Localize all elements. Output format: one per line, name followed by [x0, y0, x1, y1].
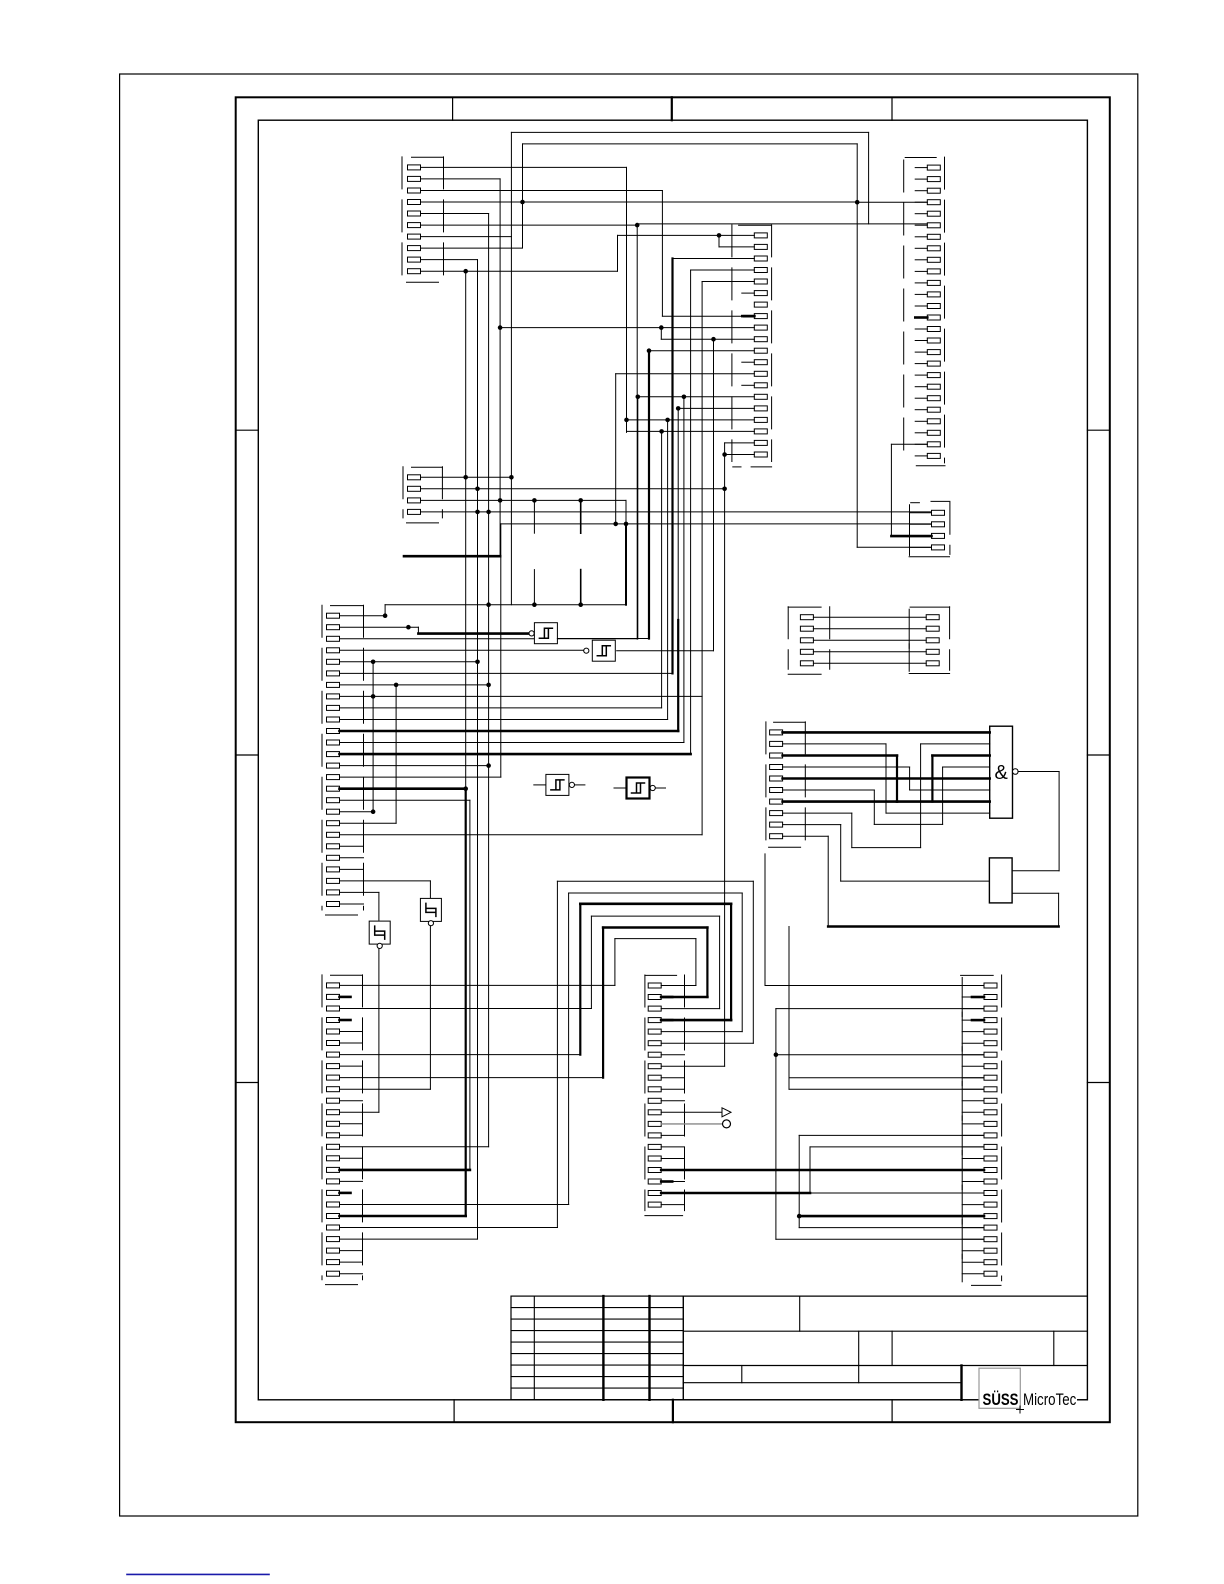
wire X5 pin19,pin20 / v724: [725, 442, 755, 444]
left jumper v396: [395, 685, 397, 823]
wire net A: X1 pin1 to bus: [421, 166, 627, 168]
wire X10 pin1 bold: [783, 731, 990, 734]
wire net: X1 pin10: [421, 270, 618, 272]
wire X11 pin12 arrow: [661, 1111, 722, 1113]
wire to X6 pin4: [857, 201, 927, 203]
wire X3 pin17: [340, 799, 470, 801]
wire X5 pin9 long: [500, 327, 754, 329]
wire S5 output to X4 pin10: [429, 926, 431, 1089]
wire X3 pin5: [340, 661, 478, 663]
connector X6 left dashed bracket: [903, 160, 905, 452]
wire net: X1 pin6: [421, 224, 638, 226]
wire vertical bus v626: [626, 167, 628, 432]
wire X2 pin4 to X7 pin1: [421, 511, 932, 513]
wire X12 pin22: [799, 1227, 984, 1229]
wire X2 pin3 / contact bus top: [421, 499, 627, 501]
inner drawing border: [258, 120, 1087, 1400]
schmitt trigger S5 (vertical): [420, 898, 441, 921]
wire X2 pin1: [421, 476, 512, 478]
connector X7 bottom bar: [909, 556, 949, 558]
wire X3 pin15: [340, 776, 501, 778]
wire X5 pin16 / X3 pin11 bold: [678, 407, 754, 409]
wire X10 pin9 to U2: [783, 824, 841, 826]
wire X5 pin11 / schmitt S1 output: [649, 350, 754, 352]
left jumper v373: [372, 662, 374, 812]
connector X4 (lower-left, 26 pins): [331, 974, 363, 976]
arch bundle 1: [557, 880, 753, 882]
wire S1 output: [557, 638, 649, 640]
wire to X7 pin3 from X6 pin25: [891, 443, 927, 445]
wire vertical x810: [809, 1147, 811, 1193]
connector X11 (bottom-middle, 20 pins): [645, 974, 677, 976]
schmitt trigger S3: [534, 784, 546, 786]
wire X5 pin13 / X7 pin2: [616, 373, 755, 375]
wire S6 output to X4 pin12: [378, 949, 380, 1113]
wire jog v661: [660, 328, 662, 340]
connector X5 bottom bar: [733, 466, 741, 468]
connector X10 (right block, 10 pins): [774, 721, 806, 723]
wire net: X1 pin8: [421, 247, 523, 249]
AND gate U1: [990, 726, 1013, 818]
frame section ticks left: [236, 429, 259, 431]
SUSS MicroTec logo: [1019, 1386, 1077, 1408]
wire X5 pin2 jog: [718, 235, 720, 247]
wire X3 pin4 to S2: [340, 649, 589, 651]
schmitt trigger S6 (vertical): [369, 921, 390, 944]
wire X11 pin13 with circle: [661, 1123, 723, 1125]
arch bundle 2: [569, 892, 743, 894]
wire to X7 pin4: [857, 546, 931, 548]
wire net: X1 pin9 down: [421, 259, 478, 261]
wire net: X1 pin7: [421, 236, 512, 238]
arch bundle 5 bold: [603, 926, 707, 929]
wire B bottom to X4 pin17 bold: [340, 1169, 470, 1172]
bold elbow: [404, 555, 500, 558]
wire X12 pin10: [789, 1088, 984, 1090]
wire vertical A x465: [465, 271, 467, 789]
wire to X6 pin6: [637, 223, 927, 225]
wire net: X1 pin2 down: [421, 178, 501, 180]
frame bottom strip dividers: [453, 1400, 455, 1422]
wire X10 pin3 bold staircase: [783, 754, 897, 757]
schmitt trigger S2: [587, 649, 589, 651]
wire net: X1 pin4 long: [421, 201, 858, 203]
box U2: [989, 858, 1012, 903]
wire X3 pin14: [340, 765, 489, 767]
wire vertical B x469: [469, 800, 471, 1170]
arch bundle 4: [591, 915, 719, 917]
blue underline bottom-left: [127, 1573, 269, 1575]
wire stub v522: [522, 144, 524, 248]
AND gate output bubble: [1013, 769, 1019, 775]
wire X12 pin15 / vertical x799: [798, 1135, 800, 1227]
wire vertical D x488: [488, 214, 490, 1147]
wire S2 output: [617, 650, 714, 652]
wire X12 pin3 / vertical x775: [775, 1009, 777, 1240]
junction dots top: [520, 200, 525, 205]
wire X4 pin20: [340, 1204, 569, 1206]
wires X8-X9: [813, 616, 926, 618]
svg-text:MicroTec: MicroTec: [1023, 1390, 1077, 1409]
wire A bottom to X4 pin21 bold: [340, 1215, 466, 1218]
wire X10 pin7 bold staircase: [783, 800, 897, 803]
wire X5 pin15 / X3 pin3 and X3 pin12: [638, 396, 755, 398]
wire X5 pin5 / X3 pin8,pin20: [702, 281, 754, 283]
wire vertical v713 S2 out: [713, 339, 715, 651]
connector X12 (bottom-right, 26 pins): [961, 974, 994, 976]
wire X5 pin1 feed: [618, 234, 755, 236]
connector X9 (5 pins, right of pair): [910, 606, 950, 608]
wire X10 pin10 to U2 loop bold: [783, 835, 829, 837]
connector X5 (middle, 20 pins): [739, 224, 772, 226]
wire X5 pin3 / X3 pin6 bold trunk: [673, 258, 755, 260]
section frame: [236, 97, 1110, 1422]
connector X12 bottom bar: [972, 1284, 1002, 1286]
wire X10 pin6 staircase: [783, 789, 875, 791]
wire X3 pin25 to S6: [340, 891, 379, 893]
wire X5 pin18 / X3 pin9: [627, 430, 755, 432]
wire X12 pin9 / vertical x789: [788, 927, 790, 1090]
wire X12 pin7: [776, 1054, 984, 1056]
wire X3 pin2 to S1: [340, 626, 419, 628]
wire X3 pin16 bold joins A: [340, 787, 466, 790]
wire net: X1 pin5 down: [421, 213, 489, 215]
connector X6 bottom bar: [916, 465, 945, 467]
wire X12 pin23: [776, 1238, 984, 1240]
wire C bottom to X4 pin23: [340, 1238, 478, 1240]
connector X3 (left tall, 26 pins): [331, 605, 364, 607]
wire vertical E2 x500 lower: [500, 524, 502, 777]
wire X10 pin2 staircase: [783, 743, 886, 745]
wire X4 pin22: [340, 1227, 558, 1229]
wire X12 pin21 bold: [799, 1215, 984, 1218]
wire X10 pin4 staircase: [783, 766, 910, 768]
connector X9 bottom bar: [909, 673, 949, 675]
frame section ticks top: [452, 97, 454, 120]
wire X5 pin4 / X3 pin13 bold row: [691, 269, 755, 271]
wire X11 pin17 to X12 pin17 bold: [661, 1169, 984, 1172]
outer page border: [120, 74, 1138, 1516]
wire top loop 2: [523, 143, 858, 145]
contact bus bottom: [385, 604, 626, 606]
wire X3 pin24 to S5: [340, 880, 431, 882]
schmitt S1 input bold: [418, 632, 529, 635]
wire X3 pin1 bus: [340, 615, 386, 617]
wire top loop 1: [511, 131, 868, 133]
wire vertical to X5 pin1: [617, 235, 619, 271]
wire X10 pin5 bold: [783, 777, 990, 780]
wire X10 pin8 staircase: [783, 812, 852, 814]
wire X12 pin1 feed: [764, 854, 766, 986]
wire X5 pin10 / schmitt S2 output: [661, 338, 754, 340]
connector X7 (right, 4 pins): [911, 502, 920, 504]
schmitt trigger S1: [529, 631, 534, 636]
svg-text:&: &: [995, 762, 1009, 784]
wire X5 pin17 / X3 pin10: [627, 419, 755, 421]
connector X6 (top-right, 26 pins): [905, 157, 936, 159]
title block table: [511, 1296, 683, 1400]
wire U1 output to U2: [1018, 771, 1059, 773]
arch bundle 6: [615, 938, 696, 940]
wire to X5 pin8: [662, 315, 754, 317]
svg-text:SÜSS: SÜSS: [983, 1390, 1019, 1409]
connector X2 (left, 4 pins): [412, 466, 443, 468]
wire vertical C x477: [477, 260, 479, 1240]
wire X3 pin7: [340, 684, 489, 686]
wire net: X1 pin3: [421, 190, 663, 192]
wire X11 pin19 to X12 pin19: [661, 1192, 810, 1195]
connector X8 (5 pins, left of pair): [788, 606, 821, 608]
wire vertical E x500: [499, 179, 501, 556]
wire vertical v662: [661, 191, 663, 317]
connector X1 (top-left, 10 pins): [412, 156, 444, 158]
schmitt trigger S4: [614, 787, 626, 789]
title block right cells: [683, 1295, 1087, 1297]
wire D bottom to X4 pin15: [340, 1146, 489, 1148]
wire X2 pin2 long: [421, 488, 725, 490]
wire vertical to X7 pin4: [856, 144, 858, 547]
wire vertical v637: [636, 224, 638, 639]
arch bundle 3 bold: [580, 902, 731, 905]
frame section ticks right: [1087, 429, 1109, 431]
contact verticals: [533, 500, 535, 533]
wire X3 pin18: [340, 811, 374, 813]
wire X3 pin19: [340, 822, 397, 824]
wire vertical v511: [510, 132, 512, 604]
